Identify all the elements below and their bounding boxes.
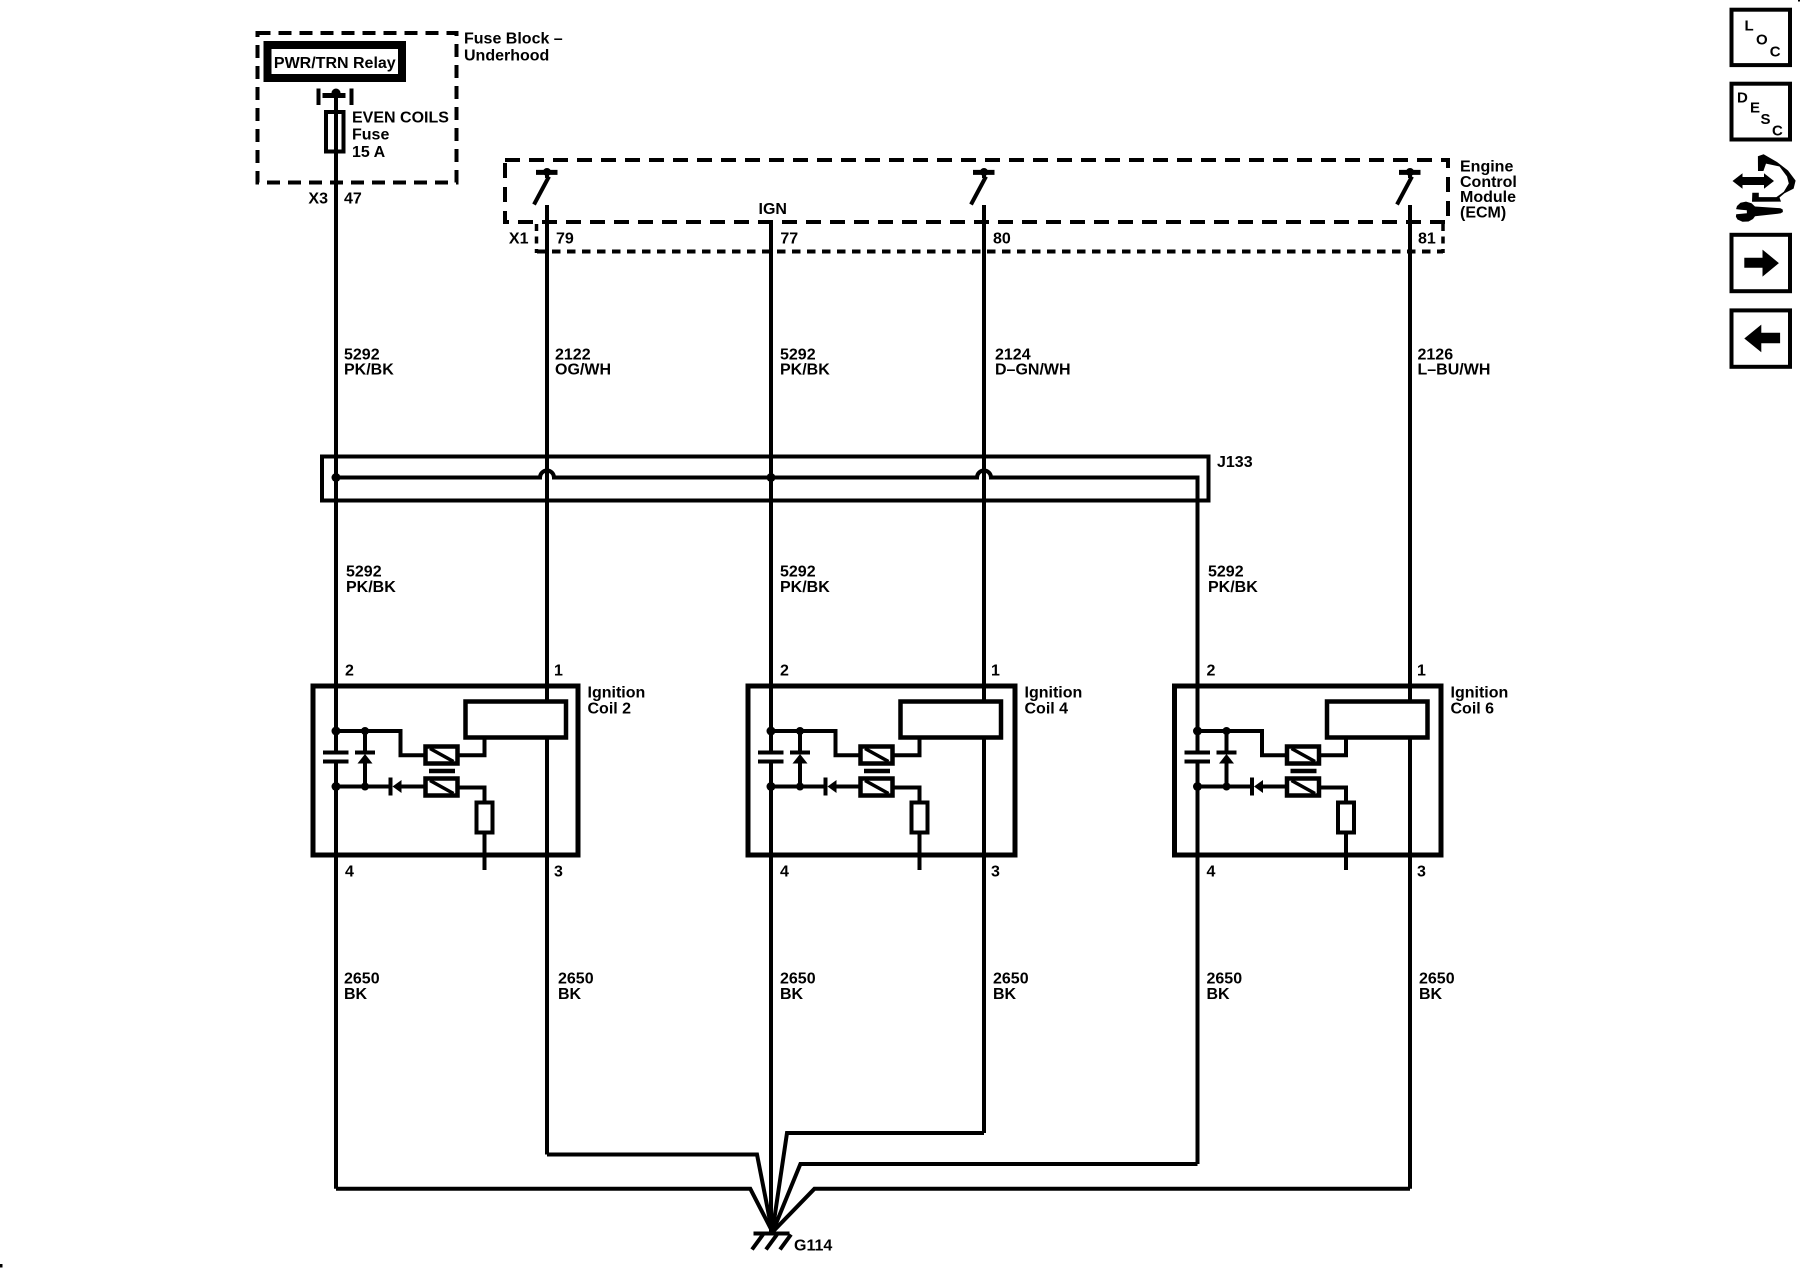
icon text LOC	[1737, 18, 1783, 140]
resistor R coil2	[477, 803, 493, 833]
splice pack J133 box	[322, 457, 1209, 501]
wire coil6 primary top	[1198, 731, 1288, 755]
left arrow	[1744, 325, 1780, 353]
coil2 node top junction	[332, 727, 341, 736]
svg-text:5292: 5292	[1208, 563, 1244, 580]
svg-text:BK: BK	[993, 986, 1017, 1003]
svg-text:C: C	[1770, 43, 1781, 60]
coil6 secondary rectangle	[1327, 702, 1428, 738]
svg-text:J133: J133	[1217, 454, 1253, 471]
coil4 box	[748, 686, 1015, 855]
svg-text:3: 3	[554, 864, 563, 881]
wire coil4 pin4 to ground	[771, 1133, 772, 1231]
svg-text:IGN: IGN	[759, 201, 787, 218]
relay box PWR/TRN Relay	[268, 45, 403, 78]
zener diode coil6	[1225, 731, 1229, 753]
wire coil4 pin3 to ground	[773, 1133, 985, 1231]
svg-text:4: 4	[345, 864, 354, 881]
svg-text:PK/BK: PK/BK	[780, 362, 830, 379]
coil6 box	[1175, 686, 1442, 855]
coil2 box	[313, 686, 578, 855]
transformer secondary winding coil4	[861, 779, 893, 796]
icon box DESC	[1732, 84, 1791, 140]
spark plug stub coil2	[483, 833, 487, 871]
svg-text:2: 2	[780, 663, 789, 680]
svg-text:L: L	[1745, 18, 1754, 35]
svg-text:BK: BK	[344, 986, 368, 1003]
connector separator right	[1441, 224, 1445, 253]
svg-text:D: D	[1737, 89, 1748, 106]
wire coil6 pin4 to ground	[773, 1164, 1198, 1231]
svg-text:PK/BK: PK/BK	[344, 362, 394, 379]
diode D coil6	[1250, 778, 1254, 796]
transformer primary winding coil4	[861, 747, 893, 764]
svg-text:80: 80	[993, 230, 1011, 247]
svg-text:PK/BK: PK/BK	[346, 579, 396, 596]
svg-text:Coil 2: Coil 2	[588, 700, 632, 717]
svg-text:5292: 5292	[346, 563, 382, 580]
svg-text:L–BU/WH: L–BU/WH	[1418, 362, 1491, 379]
icon box LOC	[1732, 10, 1791, 65]
curved band outline	[1752, 154, 1796, 201]
svg-text:X3: X3	[308, 191, 328, 208]
wire coil6 secondary to resistor	[1319, 788, 1346, 803]
artifact top right	[1798, 0, 1800, 2]
svg-text:47: 47	[344, 191, 362, 208]
fuse EVEN COILS 15 A	[326, 112, 344, 152]
wire coil4 primary to secondary rect	[893, 738, 920, 756]
wire 2126 pin81 to coil6 pin1	[1408, 205, 1412, 702]
wire coil2 lower left	[336, 785, 389, 789]
wire J133 to coil6 pin2 lower	[1196, 764, 1200, 1165]
svg-text:Ignition: Ignition	[1025, 684, 1083, 701]
ignition coil 6	[1175, 686, 1442, 870]
wire coil2 pin3 to ground	[547, 1155, 772, 1232]
diode D coil4	[824, 778, 828, 796]
svg-text:3: 3	[991, 864, 1000, 881]
junction dot J133 at 771	[767, 473, 776, 482]
ECM driver pin 81	[1397, 168, 1421, 205]
svg-text:81: 81	[1418, 230, 1436, 247]
svg-text:4: 4	[780, 864, 789, 881]
coil2 secondary rectangle	[466, 702, 567, 738]
svg-text:2: 2	[345, 663, 354, 680]
svg-text:PK/BK: PK/BK	[1208, 579, 1258, 596]
wire coil6 lower left	[1198, 785, 1251, 789]
svg-text:4: 4	[1207, 864, 1216, 881]
svg-text:2650: 2650	[344, 970, 380, 987]
capacitor C coil4	[758, 751, 784, 755]
svg-text:EVEN COILS: EVEN COILS	[352, 110, 449, 127]
resistor R coil4	[912, 803, 928, 833]
double arrow	[1733, 173, 1775, 188]
resistor R coil6	[1338, 803, 1354, 833]
transformer secondary winding coil6	[1287, 779, 1319, 796]
svg-text:Engine: Engine	[1460, 158, 1513, 175]
svg-text:Ignition: Ignition	[588, 684, 646, 701]
wire coil2 primary to secondary rect	[458, 738, 485, 756]
right arrow	[1744, 250, 1779, 277]
ECM driver pin 80	[971, 168, 995, 205]
wire IGN pin77 to coil4 pin2	[769, 220, 773, 751]
svg-text:BK: BK	[1207, 986, 1231, 1003]
zener diode coil4	[798, 731, 802, 753]
ECM driver pin 79	[534, 168, 558, 205]
transformer secondary winding coil2	[426, 779, 458, 796]
svg-text:D–GN/WH: D–GN/WH	[995, 362, 1071, 379]
artifact bottom left	[0, 1264, 3, 1268]
coil2 node bottom junction	[332, 782, 341, 791]
svg-text:Fuse: Fuse	[352, 127, 389, 144]
spark plug stub coil6	[1344, 833, 1348, 871]
svg-text:1: 1	[554, 663, 563, 680]
svg-text:PK/BK: PK/BK	[780, 579, 830, 596]
wire 336 below cap to ground run	[334, 764, 338, 1189]
wire coil4 lower left	[771, 785, 824, 789]
ECM dashed box	[505, 160, 1448, 222]
ECM connector dotted line	[537, 250, 1443, 254]
icon double arrow with wrench	[1733, 154, 1796, 221]
coil4 secondary rectangle	[901, 702, 1002, 738]
ignition coil 2	[313, 686, 578, 870]
icon box left arrow	[1732, 310, 1791, 366]
svg-text:77: 77	[780, 230, 798, 247]
svg-text:2: 2	[1207, 663, 1216, 680]
ground symbol G114	[752, 1228, 791, 1250]
svg-text:O: O	[1756, 31, 1768, 48]
icon box right arrow	[1732, 235, 1791, 291]
svg-text:BK: BK	[780, 986, 804, 1003]
wire coil6 primary to secondary rect	[1319, 738, 1346, 756]
capacitor C coil6	[1185, 751, 1211, 755]
svg-text:2650: 2650	[780, 970, 816, 987]
coil4 node bottom junction	[767, 782, 776, 791]
svg-text:Coil 4: Coil 4	[1025, 700, 1069, 717]
svg-text:2650: 2650	[1207, 970, 1243, 987]
svg-text:(ECM): (ECM)	[1460, 204, 1506, 221]
wire fuse output	[334, 95, 338, 751]
transformer primary winding coil2	[426, 747, 458, 764]
wire 2124 pin80 to coil4 pin1	[982, 205, 986, 702]
wire coil2 secondary to resistor	[458, 788, 485, 803]
svg-text:2650: 2650	[1419, 970, 1455, 987]
spark plug stub coil4	[918, 833, 922, 871]
transformer core coil2	[429, 769, 455, 774]
svg-text:S: S	[1761, 111, 1771, 128]
wire coil6 pin3 to ground	[774, 1189, 1411, 1231]
wire coil4 primary top	[771, 731, 861, 755]
diode D coil2	[389, 778, 393, 796]
coil6 node bottom junction	[1193, 782, 1202, 791]
svg-text:2650: 2650	[993, 970, 1029, 987]
svg-text:3: 3	[1417, 864, 1426, 881]
svg-text:BK: BK	[1419, 986, 1443, 1003]
zener diode coil2	[363, 731, 367, 753]
svg-text:C: C	[1772, 123, 1783, 140]
transformer primary winding coil6	[1287, 747, 1319, 764]
svg-text:BK: BK	[558, 986, 582, 1003]
connector separator X1	[535, 224, 539, 253]
wire 2122 pin79 to coil2 pin1	[545, 205, 549, 702]
svg-text:2650: 2650	[558, 970, 594, 987]
svg-text:G114: G114	[794, 1238, 832, 1255]
coil4 node top junction	[767, 727, 776, 736]
svg-text:E: E	[1750, 100, 1760, 117]
J133 internal bus with hops	[336, 471, 1198, 751]
transformer core coil4	[864, 769, 890, 774]
transformer core coil6	[1291, 769, 1317, 774]
wrench	[1736, 202, 1783, 222]
wire coil4 secondary to resistor	[893, 788, 920, 803]
svg-text:15 A: 15 A	[352, 144, 386, 161]
coil6 node top junction	[1193, 727, 1202, 736]
wire coil2 primary top	[336, 731, 426, 755]
svg-text:1: 1	[1417, 663, 1426, 680]
capacitor C coil2	[323, 751, 349, 755]
svg-text:79: 79	[556, 230, 574, 247]
svg-text:1: 1	[991, 663, 1000, 680]
relay contact bracket	[319, 89, 352, 106]
svg-text:5292: 5292	[780, 563, 816, 580]
junction dot J133 at 336	[332, 473, 341, 482]
ignition coil 4	[748, 686, 1015, 870]
svg-text:Coil 6: Coil 6	[1451, 700, 1495, 717]
wire coil2 pin4 to ground	[336, 1189, 772, 1231]
fuse block - underhood box	[258, 33, 457, 183]
svg-text:Ignition: Ignition	[1451, 684, 1509, 701]
svg-text:OG/WH: OG/WH	[555, 362, 611, 379]
svg-text:X1: X1	[509, 230, 529, 247]
svg-text:PWR/TRN Relay: PWR/TRN Relay	[274, 55, 396, 72]
svg-text:Underhood: Underhood	[464, 47, 549, 64]
svg-text:Fuse Block –: Fuse Block –	[464, 31, 563, 48]
